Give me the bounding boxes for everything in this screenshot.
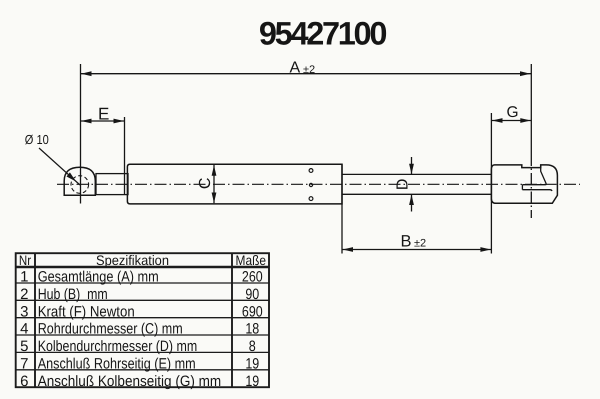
svg-text:5: 5 [20, 338, 28, 355]
E right extension line [124, 117, 126, 195]
dimension E line [81, 120, 125, 122]
table header text [19, 253, 266, 268]
svg-text:Hub (B) mm: Hub (B) mm [38, 286, 108, 303]
svg-text:Kraft (F) Newton: Kraft (F) Newton [38, 303, 135, 320]
connector rod [96, 174, 128, 195]
row line 2 [16, 299, 269, 301]
dimension G right arrow [520, 118, 531, 123]
D arrow to rod bottom [409, 195, 414, 206]
dimension B line [342, 249, 491, 251]
dimension A right arrow [520, 71, 531, 76]
table outer border [16, 253, 269, 387]
svg-text:±2: ±2 [414, 238, 426, 250]
svg-text:Anschluß Rohrseitig (E) mm: Anschluß Rohrseitig (E) mm [38, 355, 196, 372]
svg-text:18: 18 [245, 321, 259, 338]
hole top [309, 169, 313, 173]
fitting centreline vertical dash-dot [530, 169, 532, 219]
C arrow up [212, 165, 217, 176]
svg-text:7: 7 [20, 355, 28, 372]
svg-text:E: E [98, 105, 109, 124]
fitting lower lip [522, 190, 552, 191]
leader arrowhead [67, 172, 77, 181]
end fitting outer body [491, 165, 557, 203]
hole middle [309, 183, 312, 186]
svg-text:1: 1 [20, 269, 28, 286]
B left extension (tube right edge extended) [341, 164, 343, 253]
header separator thick line [16, 266, 269, 268]
table rows [20, 269, 263, 390]
dimension B label [401, 233, 427, 251]
piston rod [342, 173, 492, 175]
fitting upper lip [522, 183, 546, 186]
svg-text:Maße: Maße [236, 253, 267, 268]
cylinder tube [127, 164, 342, 204]
row line 3 [16, 317, 269, 319]
G left extension line [490, 113, 492, 166]
svg-text:Kolbendurchrmesser (D) mm: Kolbendurchrmesser (D) mm [38, 338, 198, 355]
svg-text:95427100: 95427100 [259, 15, 386, 51]
extension line left (A/E, eyelet centre) [80, 64, 82, 204]
row line 5 [16, 351, 269, 353]
svg-text:±2: ±2 [303, 64, 315, 76]
svg-text:Nr: Nr [19, 253, 32, 268]
D arrow to rod top [409, 164, 414, 175]
svg-text:90: 90 [245, 286, 259, 303]
dimension D [411, 157, 413, 174]
svg-text:D: D [394, 179, 411, 191]
leader line Ø10 [39, 148, 80, 185]
svg-text:19: 19 [245, 355, 259, 372]
dimension G left arrow [492, 118, 503, 123]
fitting lip step [521, 185, 523, 190]
svg-text:3: 3 [20, 303, 28, 320]
table column line Masse [231, 253, 233, 387]
dimension B right arrow [480, 247, 491, 252]
svg-text:6: 6 [20, 373, 28, 390]
C arrow down [212, 193, 217, 204]
dimension A line [81, 73, 532, 75]
hidden ball dashed circle [71, 176, 89, 194]
svg-text:Anschluß Kolbenseitig (G) mm: Anschluß Kolbenseitig (G) mm [38, 373, 222, 390]
hole bottom [309, 197, 313, 201]
main centreline dash-dot [57, 183, 580, 185]
dimension G line [491, 120, 531, 122]
svg-text:A: A [290, 60, 301, 77]
svg-text:B: B [401, 233, 412, 251]
svg-text:690: 690 [242, 303, 263, 320]
dimension E left arrow [81, 119, 92, 124]
row line 1 [16, 282, 269, 284]
svg-text:2: 2 [20, 286, 28, 303]
svg-text:Gesamtlänge (A) mm: Gesamtlänge (A) mm [38, 269, 159, 286]
table column line Nr [34, 253, 36, 387]
svg-text:19: 19 [245, 373, 259, 390]
svg-text:Ø 10: Ø 10 [25, 132, 49, 147]
svg-text:8: 8 [249, 338, 256, 355]
svg-text:G: G [507, 104, 519, 121]
dimension A left arrow [81, 71, 92, 76]
dimension A label [290, 60, 316, 77]
B right extension / fitting left edge line [490, 166, 492, 254]
svg-text:260: 260 [242, 269, 263, 286]
svg-text:Spezifikation: Spezifikation [96, 253, 169, 268]
dimension E right arrow [114, 119, 125, 124]
svg-text:Rohrdurchmesser (C) mm: Rohrdurchmesser (C) mm [38, 321, 183, 338]
specification table [16, 253, 269, 387]
fitting inner socket edge [541, 165, 547, 184]
row line 6 [16, 369, 269, 371]
svg-text:4: 4 [20, 321, 28, 338]
eyelet ball socket [64, 167, 95, 195]
extension line right (A/G, fitting centre) [530, 64, 532, 166]
dimension B left arrow [343, 247, 354, 252]
row line 4 [16, 334, 269, 336]
C dimension line inside tube [213, 165, 215, 203]
svg-text:C: C [197, 178, 214, 190]
